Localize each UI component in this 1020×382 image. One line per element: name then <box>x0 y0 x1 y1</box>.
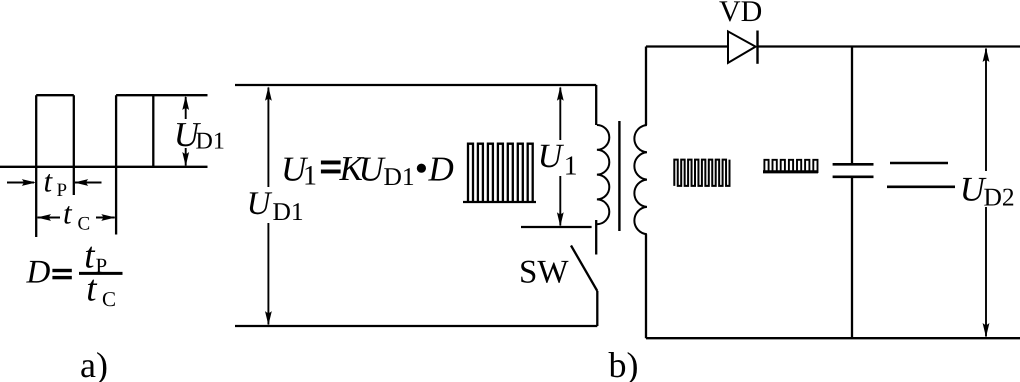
svg-text:1: 1 <box>303 161 317 192</box>
svg-text:D2: D2 <box>984 183 1015 212</box>
svg-text:D: D <box>26 255 51 291</box>
svg-text:D1: D1 <box>273 197 304 226</box>
svg-text:U: U <box>538 138 565 175</box>
svg-text:D1: D1 <box>196 129 225 155</box>
svg-text:VD: VD <box>719 0 762 28</box>
svg-text:D1: D1 <box>384 162 415 191</box>
svg-text:U: U <box>359 150 387 189</box>
svg-text:1: 1 <box>564 150 578 181</box>
svg-text:U: U <box>247 186 273 222</box>
svg-text:SW: SW <box>519 254 569 290</box>
svg-text:t: t <box>86 269 98 310</box>
svg-text:t: t <box>63 196 73 231</box>
svg-text:C: C <box>78 214 91 235</box>
svg-text:D: D <box>428 150 454 189</box>
svg-text:C: C <box>102 287 116 311</box>
svg-text:b): b) <box>609 345 639 382</box>
svg-text:P: P <box>96 254 108 278</box>
svg-text:t: t <box>44 163 54 198</box>
svg-text:a): a) <box>80 345 108 382</box>
